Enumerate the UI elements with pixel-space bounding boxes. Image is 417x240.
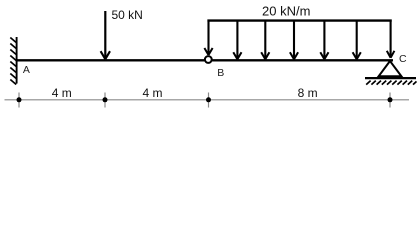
dimension dot at load	[103, 97, 108, 102]
distributed load arrow 5	[320, 20, 328, 60]
dimension tick at load	[104, 93, 106, 108]
point load arrow 50 kN	[101, 11, 110, 59]
svg-text:50 kN: 50 kN	[112, 8, 143, 22]
dimension tick at B	[208, 93, 210, 108]
node label B	[217, 67, 224, 79]
distributed load arrow 4	[290, 20, 298, 60]
dimension label 8 m (B to C)	[298, 86, 318, 100]
value label 20 kN/m	[262, 3, 310, 18]
dimension dot at B	[206, 97, 211, 102]
distributed load arrow 1 (at B)	[204, 20, 212, 56]
value label 50 kN	[112, 8, 143, 22]
support C ground line	[365, 77, 416, 79]
dimension label 4 m (A to load)	[52, 86, 72, 100]
svg-text:8 m: 8 m	[298, 86, 318, 100]
node label A	[23, 64, 30, 76]
distributed load arrow 6	[353, 20, 361, 60]
svg-text:4 m: 4 m	[52, 86, 72, 100]
distributed load arrow 2	[233, 20, 241, 60]
dimension tick at C	[389, 93, 391, 108]
fixed support wall at A	[16, 37, 18, 84]
distributed load arrow 3	[261, 20, 269, 60]
dimension line	[5, 99, 410, 101]
svg-text:A: A	[23, 64, 30, 76]
dimension tick at A	[18, 93, 20, 108]
distributed load arrow 7 (right edge)	[387, 20, 395, 58]
dimension dot at A	[17, 97, 22, 102]
svg-text:B: B	[217, 67, 224, 79]
node label C	[399, 53, 407, 65]
svg-text:20 kN/m: 20 kN/m	[262, 3, 310, 18]
distributed load top line	[207, 19, 391, 21]
dimension dot at C	[388, 97, 393, 102]
roller support C triangle	[379, 61, 402, 76]
wall hatching	[10, 38, 16, 85]
dimension label 4 m (load to B)	[142, 86, 162, 100]
hinge B (internal hinge circle)	[205, 56, 212, 63]
support C ground hatching	[366, 81, 416, 85]
svg-text:C: C	[399, 53, 407, 65]
beam A-C	[16, 59, 393, 61]
svg-text:4 m: 4 m	[142, 86, 162, 100]
